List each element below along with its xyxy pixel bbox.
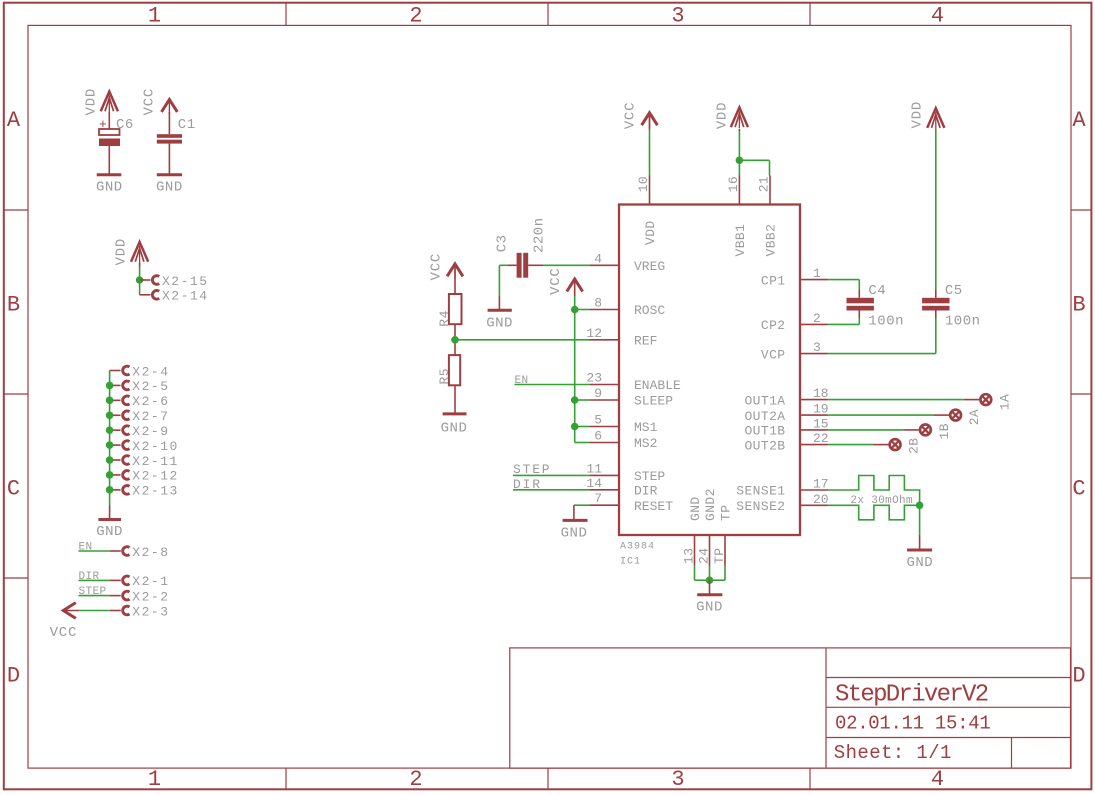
svg-text:3: 3 bbox=[671, 4, 684, 29]
svg-text:OUT2B: OUT2B bbox=[744, 438, 785, 453]
svg-text:C3: C3 bbox=[495, 234, 511, 252]
svg-text:13: 13 bbox=[682, 548, 697, 564]
svg-text:12: 12 bbox=[586, 326, 602, 341]
svg-text:18: 18 bbox=[813, 386, 829, 401]
svg-text:17: 17 bbox=[813, 477, 829, 492]
svg-text:REF: REF bbox=[634, 334, 657, 349]
svg-text:VCC: VCC bbox=[623, 102, 639, 130]
svg-text:23: 23 bbox=[586, 371, 602, 386]
svg-text:A: A bbox=[1072, 108, 1086, 133]
svg-text:IC1: IC1 bbox=[620, 557, 641, 568]
svg-text:X2-4: X2-4 bbox=[132, 364, 169, 379]
svg-text:STEP: STEP bbox=[634, 469, 665, 484]
svg-text:GND: GND bbox=[156, 180, 183, 196]
svg-text:2: 2 bbox=[813, 311, 821, 326]
svg-text:ROSC: ROSC bbox=[634, 303, 665, 318]
svg-text:OUT1A: OUT1A bbox=[744, 393, 785, 408]
svg-text:X2-12: X2-12 bbox=[132, 469, 179, 484]
svg-text:1: 1 bbox=[813, 266, 821, 281]
svg-text:VCP: VCP bbox=[761, 347, 786, 362]
svg-text:9: 9 bbox=[594, 386, 602, 401]
svg-text:1B: 1B bbox=[937, 423, 952, 439]
svg-text:DIR: DIR bbox=[634, 484, 658, 499]
svg-text:7: 7 bbox=[594, 491, 602, 506]
svg-text:VCC: VCC bbox=[429, 253, 445, 281]
svg-text:X2-6: X2-6 bbox=[132, 394, 169, 409]
svg-text:5: 5 bbox=[594, 413, 602, 428]
svg-text:X2-9: X2-9 bbox=[132, 424, 169, 439]
svg-text:CP2: CP2 bbox=[761, 318, 786, 333]
svg-text:VCC: VCC bbox=[548, 267, 564, 295]
svg-text:10: 10 bbox=[636, 176, 651, 192]
svg-text:14: 14 bbox=[586, 476, 602, 491]
svg-text:TP: TP bbox=[712, 548, 727, 564]
svg-text:A: A bbox=[7, 108, 21, 133]
svg-text:8: 8 bbox=[594, 296, 602, 311]
svg-text:X2-1: X2-1 bbox=[132, 574, 169, 589]
svg-text:A3984: A3984 bbox=[620, 542, 655, 553]
svg-text:C6: C6 bbox=[116, 117, 134, 133]
svg-text:16: 16 bbox=[726, 176, 741, 192]
svg-text:VREG: VREG bbox=[634, 259, 665, 274]
svg-text:100n: 100n bbox=[868, 313, 904, 329]
svg-text:2B: 2B bbox=[907, 438, 922, 454]
svg-text:VDD: VDD bbox=[114, 238, 130, 266]
svg-text:VDD: VDD bbox=[715, 102, 731, 130]
svg-text:22: 22 bbox=[813, 431, 829, 446]
svg-text:R5: R5 bbox=[437, 368, 452, 385]
svg-text:ENABLE: ENABLE bbox=[634, 378, 681, 393]
svg-text:4: 4 bbox=[594, 251, 602, 266]
svg-text:GND: GND bbox=[486, 316, 513, 332]
svg-text:RESET: RESET bbox=[634, 499, 673, 514]
svg-text:GND: GND bbox=[696, 600, 723, 616]
svg-text:6: 6 bbox=[594, 429, 602, 444]
svg-text:StepDriverV2: StepDriverV2 bbox=[835, 682, 988, 709]
svg-text:VCC: VCC bbox=[50, 625, 78, 641]
svg-text:X2-11: X2-11 bbox=[132, 454, 179, 469]
svg-text:100n: 100n bbox=[945, 313, 981, 329]
svg-text:CP1: CP1 bbox=[761, 273, 786, 288]
svg-text:X2-15: X2-15 bbox=[162, 274, 209, 289]
svg-text:OUT1B: OUT1B bbox=[744, 424, 785, 439]
svg-text:X2-13: X2-13 bbox=[132, 484, 179, 499]
svg-text:SENSE2: SENSE2 bbox=[736, 499, 785, 514]
svg-text:20: 20 bbox=[813, 492, 829, 507]
svg-text:1A: 1A bbox=[997, 394, 1012, 410]
svg-text:3: 3 bbox=[671, 767, 684, 792]
svg-text:11: 11 bbox=[586, 461, 602, 476]
svg-text:GND: GND bbox=[441, 421, 468, 437]
svg-text:MS1: MS1 bbox=[634, 420, 658, 435]
svg-text:B: B bbox=[1072, 293, 1085, 318]
svg-text:4: 4 bbox=[931, 767, 944, 792]
svg-text:1: 1 bbox=[148, 767, 161, 792]
svg-text:C: C bbox=[7, 477, 20, 502]
svg-text:C: C bbox=[1072, 477, 1085, 502]
svg-text:15: 15 bbox=[813, 416, 829, 431]
svg-text:X2-7: X2-7 bbox=[132, 409, 169, 424]
svg-text:D: D bbox=[7, 664, 20, 689]
svg-text:GND: GND bbox=[561, 526, 588, 542]
svg-text:X2-3: X2-3 bbox=[132, 604, 169, 619]
svg-text:220n: 220n bbox=[532, 217, 548, 253]
svg-text:X2-8: X2-8 bbox=[132, 545, 169, 560]
svg-text:24: 24 bbox=[697, 548, 712, 564]
svg-text:GND: GND bbox=[96, 180, 123, 196]
svg-text:SENSE1: SENSE1 bbox=[736, 484, 785, 499]
svg-text:3: 3 bbox=[813, 340, 821, 355]
svg-text:C4: C4 bbox=[868, 283, 886, 299]
svg-text:VDD: VDD bbox=[910, 101, 926, 129]
svg-text:2x 30mOhm: 2x 30mOhm bbox=[850, 495, 913, 507]
svg-text:2: 2 bbox=[409, 4, 422, 29]
svg-text:02.01.11 15:41: 02.01.11 15:41 bbox=[835, 713, 990, 735]
svg-text:R4: R4 bbox=[437, 310, 452, 327]
svg-text:X2-10: X2-10 bbox=[132, 439, 179, 454]
svg-text:2: 2 bbox=[409, 767, 422, 792]
svg-text:GND: GND bbox=[96, 524, 123, 540]
svg-text:GND2: GND2 bbox=[703, 488, 718, 521]
svg-text:VBB1: VBB1 bbox=[733, 224, 748, 257]
svg-text:VBB2: VBB2 bbox=[764, 224, 779, 257]
svg-text:1: 1 bbox=[148, 4, 161, 29]
svg-text:C1: C1 bbox=[178, 117, 196, 133]
svg-text:X2-2: X2-2 bbox=[132, 589, 169, 604]
svg-text:X2-5: X2-5 bbox=[132, 379, 169, 394]
svg-text:VCC: VCC bbox=[142, 88, 158, 116]
svg-text:D: D bbox=[1072, 664, 1085, 689]
svg-text:OUT2A: OUT2A bbox=[744, 409, 785, 424]
svg-text:21: 21 bbox=[757, 176, 772, 192]
svg-text:X2-14: X2-14 bbox=[162, 289, 209, 304]
svg-text:GND: GND bbox=[906, 555, 933, 571]
svg-text:VDD: VDD bbox=[84, 88, 100, 116]
svg-text:4: 4 bbox=[931, 4, 944, 29]
svg-text:Sheet: 1/1: Sheet: 1/1 bbox=[834, 742, 952, 764]
svg-text:19: 19 bbox=[813, 402, 829, 417]
svg-text:B: B bbox=[7, 293, 20, 318]
svg-text:TP: TP bbox=[719, 505, 734, 521]
svg-text:VDD: VDD bbox=[643, 220, 658, 245]
svg-text:MS2: MS2 bbox=[634, 436, 657, 451]
svg-text:GND: GND bbox=[688, 496, 703, 521]
svg-text:C5: C5 bbox=[945, 283, 963, 299]
svg-text:2A: 2A bbox=[967, 409, 982, 425]
svg-text:SLEEP: SLEEP bbox=[634, 394, 673, 409]
